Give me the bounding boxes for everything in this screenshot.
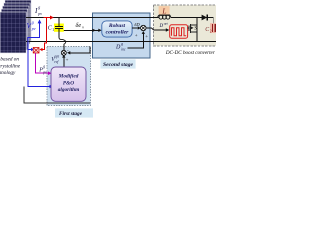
block container: DC-DC boost converter box: [154, 5, 218, 46]
svg-text:First stage: First stage: [59, 111, 83, 117]
caption: PV panels based on polycrystalline technology: [0, 56, 21, 76]
wire: P&O output V_ref to junction S1: [63, 57, 65, 67]
svg-text:polycrystalline: polycrystalline: [0, 63, 21, 69]
svg-text:Second stage: Second stage: [103, 62, 134, 68]
svg-text:+: +: [135, 34, 138, 39]
wire: negative return rail: [26, 41, 216, 43]
svg-text:+: +: [66, 58, 69, 63]
wire: auxiliary feedback branch into first stage: [24, 87, 90, 104]
inductor L: [159, 14, 170, 16]
summing junction S2 (delta-D + D_inc): [141, 25, 146, 30]
svg-text:+: +: [145, 35, 148, 40]
wire: voltage sense feed to multiplier and P&O (blue): [28, 29, 50, 87]
wire: PV positive rail to boost converter: [26, 17, 159, 19]
svg-text:1: 1: [52, 27, 54, 32]
PV array (stacked polycrystalline panels): [0, 0, 31, 53]
svg-text:Robust: Robust: [108, 23, 126, 29]
transistor S (MOSFET switch): [188, 24, 197, 33]
svg-text:δD: δD: [134, 22, 140, 27]
value label L (highlighted): [159, 6, 170, 15]
svg-text:2: 2: [210, 29, 212, 33]
diode D1: [202, 15, 208, 21]
svg-text:P&O: P&O: [63, 80, 74, 86]
block: Robust controller U1: [102, 21, 132, 37]
current arrow I_pv (red): [44, 17, 51, 19]
svg-text:g: g: [121, 42, 123, 46]
svg-text:pv: pv: [37, 11, 42, 16]
svg-text:C: C: [205, 27, 209, 33]
wire: current sense feed to multiplier (red): [41, 18, 47, 50]
capacitor C2 (output, highlighted): [210, 23, 217, 33]
wire: duty command D_opt to PWM generator: [146, 28, 166, 30]
label: First stage: [55, 108, 93, 117]
voltage arrow V_pv (blue): [39, 23, 41, 29]
svg-text:algorithm: algorithm: [58, 87, 80, 93]
wire: D_inc feedforward into junction S2: [128, 33, 144, 48]
capacitor C1 (input link, highlighted): [54, 24, 64, 32]
wire: inductor to diode and C2 node: [171, 18, 214, 25]
summing junction S1 (V_ref - V_pv): [61, 50, 66, 55]
capacitor C2 plates: [212, 24, 215, 32]
svg-text:pv: pv: [31, 26, 36, 31]
block: Modified P&O algorithm: [51, 67, 86, 101]
svg-text:g: g: [32, 20, 34, 25]
svg-text:opt: opt: [164, 21, 168, 25]
svg-text:δe: δe: [76, 22, 82, 29]
wire: switch leg from positive rail to return rail: [196, 18, 198, 42]
svg-text:PV panels based on: PV panels based on: [0, 56, 19, 62]
block container: First stage box: [47, 47, 90, 106]
svg-text:g: g: [43, 64, 45, 68]
svg-text:Modified: Modified: [58, 74, 79, 80]
svg-text:technology: technology: [0, 70, 16, 76]
svg-text:v: v: [82, 25, 84, 30]
svg-text:L: L: [161, 7, 166, 16]
svg-text:controller: controller: [106, 30, 130, 36]
multiplier M1 (P = V x I): [33, 48, 39, 54]
block container: Second stage box: [47, 5, 218, 106]
wire: feedback into junction S1 from stage border: [69, 47, 90, 53]
wire: V_pv drop to junction S1 with hop over return rail: [59, 37, 66, 44]
label: Second stage: [100, 59, 135, 68]
block: PWM gate pulse generator: [170, 25, 188, 38]
svg-text:g: g: [38, 5, 40, 10]
wire: error signal delta-e_v into robust controller: [59, 29, 99, 31]
wire: controller output to junction S2: [132, 27, 138, 29]
svg-text:D: D: [115, 44, 121, 50]
svg-text:inc: inc: [121, 47, 126, 51]
svg-text:pv: pv: [42, 70, 47, 74]
svg-text:DC-DC boost converter: DC-DC boost converter: [165, 50, 215, 56]
wire: power signal P_pv to P&O block (magenta): [35, 53, 48, 73]
